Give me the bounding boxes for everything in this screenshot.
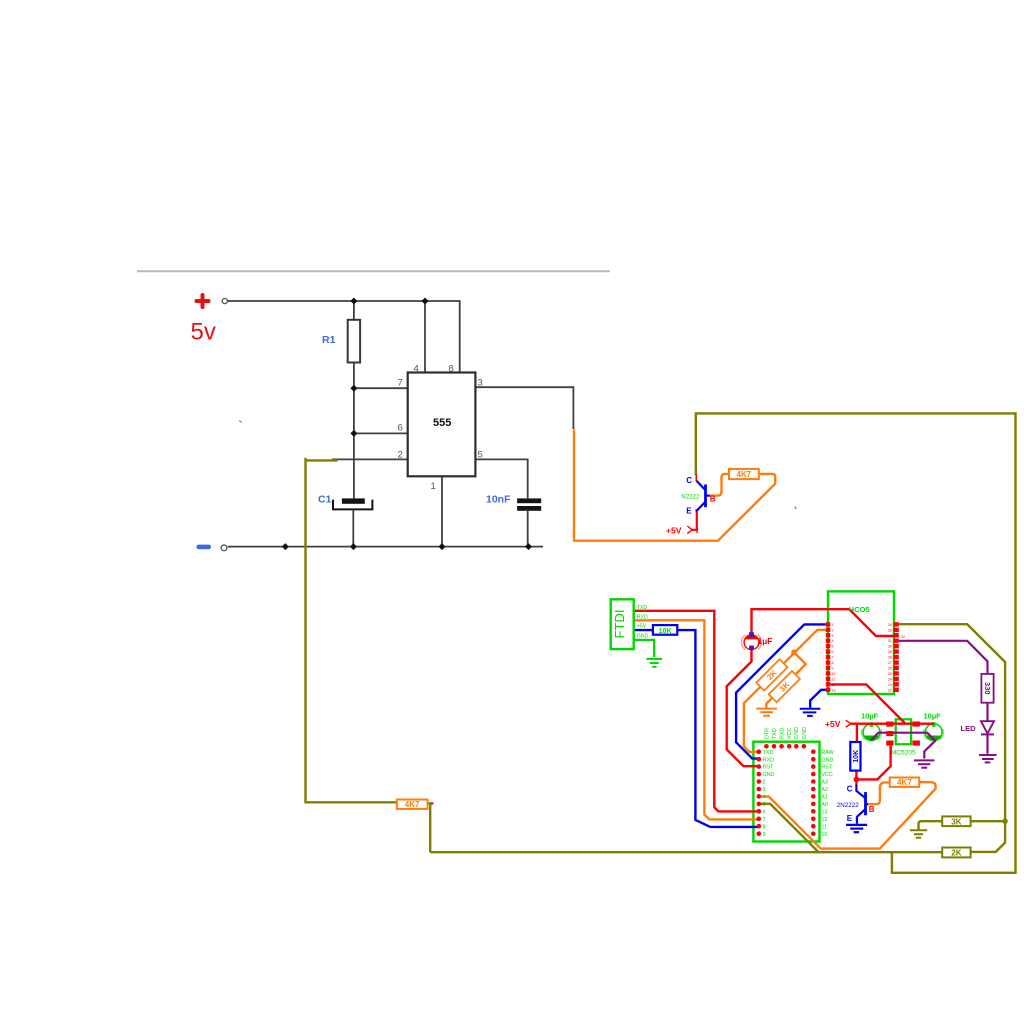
junction pin7 node [350, 385, 357, 392]
diode LED [961, 721, 995, 734]
wire C1 bottom lead [352, 509, 354, 546]
MC5205 pads [886, 722, 920, 746]
svg-text:34: 34 [888, 623, 892, 627]
svg-text:1µF: 1µF [758, 636, 773, 646]
pin number 3 [478, 378, 483, 389]
wire orange FTDI RXD to arduino pin7 [634, 620, 759, 819]
resistor 330 [981, 674, 993, 703]
pin number 6 [398, 423, 403, 434]
wire 10nF bottom lead [527, 511, 529, 547]
svg-text:C: C [686, 476, 692, 485]
svg-text:2: 2 [398, 450, 403, 461]
wire red HC05 pin12 to regulator input [830, 684, 905, 723]
svg-text:8: 8 [449, 364, 454, 375]
svg-text:330: 330 [983, 682, 992, 695]
svg-text:23: 23 [888, 683, 892, 687]
svg-text:2N2222: 2N2222 [837, 802, 860, 809]
junction red Q2 collector node [854, 777, 860, 783]
capacitor 1uF [742, 632, 773, 650]
stray mark b [795, 507, 797, 510]
junction olive divider node [1002, 819, 1007, 824]
svg-text:RAW: RAW [821, 750, 834, 756]
junction ground rail C1 [350, 543, 357, 550]
svg-text:5v: 5v [191, 319, 216, 346]
svg-text:555: 555 [433, 417, 451, 429]
svg-text:VCC: VCC [821, 772, 832, 778]
pin label GND [637, 633, 649, 639]
label Q1 E [686, 507, 692, 516]
pin number 5 [478, 450, 483, 461]
wire olive 3K right lead [971, 820, 1006, 822]
svg-text:11: 11 [821, 824, 827, 830]
svg-text:A1: A1 [821, 795, 828, 801]
svg-text:6: 6 [398, 423, 403, 434]
wire red +5V rail lower [851, 723, 934, 725]
svg-text:C1: C1 [318, 494, 332, 506]
svg-text:RST: RST [821, 765, 832, 771]
capacitor C1 [318, 494, 372, 510]
resistor 10K-2 (vertical) [850, 742, 860, 771]
svg-text:3: 3 [763, 787, 766, 793]
ground rail wire [228, 546, 543, 548]
svg-text:1: 1 [431, 481, 436, 492]
svg-text:3: 3 [478, 378, 483, 389]
HC05 pin number 32 outside [901, 635, 905, 639]
svg-text:26: 26 [888, 667, 892, 671]
ground green (FTDI) [646, 659, 662, 667]
svg-text:A2: A2 [821, 787, 828, 793]
svg-text:DTR: DTR [764, 728, 770, 739]
top +5v rail wire [228, 300, 460, 302]
svg-text:25: 25 [888, 672, 892, 676]
svg-text:+5V: +5V [637, 624, 647, 630]
svg-text:4: 4 [763, 795, 766, 801]
wire purple regulator output net [871, 733, 936, 759]
svg-text:LED: LED [961, 724, 977, 733]
wire orange from 555 pin3 [574, 429, 775, 540]
svg-text:10K: 10K [659, 628, 672, 635]
svg-text:8: 8 [832, 661, 834, 665]
svg-text:31: 31 [888, 639, 892, 643]
svg-text:12: 12 [821, 817, 827, 823]
svg-text:10µF: 10µF [861, 711, 879, 720]
ground blue (Q2 emitter) [846, 825, 867, 832]
svg-text:1: 1 [832, 623, 834, 627]
resistor 2K-diag [756, 659, 787, 690]
ground orange (3K-2) [756, 709, 777, 716]
svg-text:2K: 2K [951, 849, 961, 858]
5v label [191, 319, 216, 346]
plus terminal circle [222, 298, 227, 303]
svg-text:3: 3 [832, 634, 834, 638]
wire R1 top lead [353, 301, 355, 320]
wire orange arduino pin4 to 4K7-2 [759, 782, 936, 848]
capacitor 10uF right [924, 711, 944, 740]
svg-text:A0: A0 [821, 802, 828, 808]
svg-text:22: 22 [888, 688, 892, 692]
label Q2 2N2222 [837, 802, 860, 809]
wire olive border loop [696, 413, 1016, 872]
junction top rail at R1 [350, 298, 357, 305]
wire red junction to regulator [856, 746, 890, 780]
svg-text:11: 11 [832, 677, 836, 681]
svg-text:33: 33 [888, 628, 892, 632]
svg-text:B: B [710, 495, 716, 504]
wire blue FTDI +5V via 10K to arduino pin8 [634, 630, 759, 827]
svg-text:8: 8 [763, 824, 766, 830]
minus terminal circle [221, 545, 227, 551]
svg-text:TXD: TXD [637, 605, 648, 611]
svg-text:RXD: RXD [637, 614, 648, 620]
wire orange HC05 pin2 diagonal through 2K to arduino TXD [744, 630, 826, 752]
wire pin5 [475, 459, 527, 498]
svg-text:9: 9 [832, 667, 834, 671]
arduino right pin labels [821, 750, 834, 838]
svg-text:4K7: 4K7 [405, 800, 420, 809]
svg-text:24: 24 [888, 677, 892, 681]
svg-text:10K: 10K [853, 750, 860, 763]
wire node column pin7 to C1 [353, 388, 355, 498]
svg-text:5: 5 [763, 802, 766, 808]
wire purple 330 to LED [986, 703, 988, 722]
pin label TXD [637, 605, 648, 611]
wire orange branch through 3K to ground [766, 652, 805, 708]
pin label RXD [637, 614, 648, 620]
wire orange 4K7-1 left lead to Q1 base [710, 474, 729, 496]
svg-text:13: 13 [832, 688, 836, 692]
svg-text:9: 9 [763, 832, 766, 838]
connector FTDI body [611, 599, 634, 649]
svg-text:4: 4 [832, 639, 834, 643]
wire olive bottom run to 2K [430, 851, 942, 853]
regulator MC5205 body [891, 719, 916, 756]
label Q2 C [847, 784, 853, 793]
label Q1 B [710, 495, 716, 504]
svg-text:10nF: 10nF [486, 494, 511, 506]
svg-text:FTDI: FTDI [612, 610, 627, 639]
arduino top pads [764, 744, 806, 749]
svg-text:30: 30 [888, 645, 892, 649]
resistor 10K-1 [653, 625, 677, 635]
svg-text:10µF: 10µF [924, 711, 942, 720]
svg-text:HCO5: HCO5 [849, 605, 870, 614]
svg-text:28: 28 [888, 656, 892, 660]
wire olive from 4K7 down to bottom run [428, 803, 431, 852]
svg-text:2: 2 [832, 628, 834, 632]
svg-text:4K7: 4K7 [897, 778, 912, 787]
svg-text:3K: 3K [951, 817, 961, 826]
arduino left pin labels [763, 750, 775, 838]
svg-text:E: E [686, 507, 692, 516]
wire pin7 [354, 387, 408, 389]
pin number 8 [449, 364, 454, 375]
svg-text:7: 7 [398, 378, 403, 389]
resistor 2K [942, 848, 970, 858]
pin number 1 [431, 481, 436, 492]
pin number 2 [398, 450, 403, 461]
minus terminal symbol [196, 545, 211, 550]
svg-text:E: E [847, 814, 853, 823]
wire olive pin2 tap [306, 458, 397, 803]
svg-text:A3: A3 [821, 780, 828, 786]
wire olive 3K left lead to ground [919, 821, 943, 830]
svg-text:GND: GND [821, 757, 833, 763]
wire pin8 drop [459, 300, 461, 372]
pin number 7 [398, 378, 403, 389]
svg-text:RST: RST [763, 765, 774, 771]
svg-text:GND: GND [637, 633, 649, 639]
svg-text:+5V: +5V [666, 525, 682, 535]
label Q1 C [686, 476, 692, 485]
svg-text:TXD: TXD [772, 728, 778, 739]
svg-text:10: 10 [832, 672, 836, 676]
divider rule [137, 270, 610, 272]
svg-text:MC5205: MC5205 [891, 750, 916, 757]
svg-text:RXD: RXD [780, 728, 786, 739]
HC05 left pin numbers [832, 623, 836, 692]
svg-text:GND: GND [763, 772, 775, 778]
arduino top pin labels [764, 727, 808, 739]
wire pin4 drop [424, 301, 426, 373]
svg-text:GND: GND [802, 727, 808, 739]
wire pin2 [332, 458, 408, 460]
wire pin6 [354, 432, 408, 434]
module HC05 body [828, 591, 894, 694]
wire red 1uF top to HC05 pin32 [752, 609, 894, 636]
junction top rail at pin4 [422, 298, 429, 305]
svg-text:7: 7 [832, 656, 834, 660]
junction orange divider node [791, 649, 797, 655]
arduino right pads [811, 749, 816, 836]
HC05 right pin numbers [888, 623, 892, 692]
HC05 label [849, 605, 870, 614]
wire red 10K-2 bottom lead to Q2 [855, 771, 857, 786]
plus terminal symbol [197, 295, 209, 307]
wire purple LED to ground [986, 734, 988, 753]
svg-text:+5V: +5V [825, 719, 841, 729]
transistor Q2 [856, 785, 868, 824]
svg-text:29: 29 [888, 650, 892, 654]
transistor Q1 [696, 474, 710, 510]
pin number 4 [414, 364, 419, 375]
wire red 1uF bottom to arduino RST [727, 648, 759, 766]
svg-text:13: 13 [821, 809, 827, 815]
label Q2 B [869, 805, 875, 814]
svg-text:12: 12 [832, 683, 836, 687]
label Q1 N2222 [681, 494, 700, 501]
resistor 4K7-3 (lower right) [890, 778, 920, 788]
svg-text:6: 6 [832, 650, 834, 654]
module arduino body [753, 742, 819, 842]
svg-text:GND: GND [794, 727, 800, 739]
svg-text:32: 32 [901, 635, 905, 639]
ground olive (3K) [910, 830, 927, 837]
label +5V upper [666, 525, 697, 535]
svg-text:R1: R1 [322, 334, 336, 346]
wire red Q1 emitter to +5V [692, 512, 697, 530]
wire pin3 output [475, 387, 573, 429]
junction ground rail pin1 [439, 543, 446, 550]
HC05 right pads [893, 622, 898, 692]
svg-text:6: 6 [763, 809, 766, 815]
capacitor 10nF [486, 494, 541, 511]
svg-text:2: 2 [763, 780, 766, 786]
wire blue HC05 pin1 to arduino RXD [736, 624, 826, 758]
svg-text:RXD: RXD [763, 757, 774, 763]
wire purple HC05 pin31 to 330 [899, 641, 988, 674]
svg-text:27: 27 [888, 661, 892, 665]
wire orange Q2 base hook to 4K7-3 [866, 782, 889, 804]
op 555 IC body U1 [408, 373, 476, 477]
resistor 3K [942, 816, 970, 826]
svg-text:C: C [847, 784, 853, 793]
resistor R1 [322, 320, 360, 363]
junction ground rail a [282, 543, 289, 550]
stray mark a [239, 421, 242, 423]
ground blue (HC05 pin13) [800, 709, 821, 716]
svg-text:VCC: VCC [787, 728, 793, 739]
wire blue HC05 pin13 to ground [810, 690, 826, 708]
wire pin1 to ground rail [441, 476, 443, 546]
wire green FTDI GND [634, 640, 655, 657]
arduino left pads [757, 749, 762, 836]
ground purple (LED) [979, 755, 996, 762]
svg-text:4: 4 [414, 364, 419, 375]
HC05 left pads [826, 622, 831, 692]
junction pin6 node [350, 430, 357, 437]
svg-text:5: 5 [832, 645, 834, 649]
wire red 10K-2 top lead [856, 724, 858, 742]
capacitor 10uF left [861, 711, 881, 740]
svg-text:N2222: N2222 [681, 494, 700, 501]
junction ground rail 10nF [525, 543, 532, 550]
svg-text:4K7: 4K7 [737, 470, 752, 479]
wire R1 bottom lead [353, 363, 355, 389]
svg-text:B: B [869, 805, 875, 814]
resistor 4K7-2 (bottom left) [397, 800, 434, 810]
ground purple (regulator) [914, 760, 935, 767]
resistor 3K-diag [769, 671, 800, 702]
label Q2 E [847, 814, 853, 823]
svg-text:TXD: TXD [763, 750, 774, 756]
svg-text:7: 7 [763, 817, 766, 823]
wire red FTDI TXD to arduino pin6 [634, 611, 759, 812]
svg-text:5: 5 [478, 450, 483, 461]
wire olive arduino pin5 stub [759, 804, 819, 852]
label +5V lower [825, 719, 851, 729]
svg-text:10: 10 [821, 832, 827, 838]
wire olive HC05 pin34 to divider [899, 624, 1005, 852]
resistor 4K7-1 (upper) [729, 469, 759, 479]
pin label +5V [637, 624, 647, 630]
